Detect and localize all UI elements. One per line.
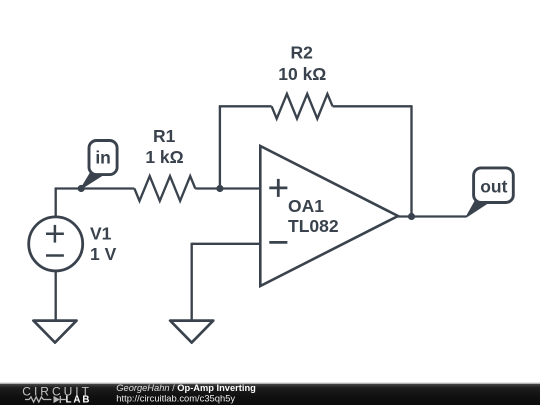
junction dot output node [408, 213, 415, 220]
wire R2 branch right segment [333, 105, 412, 107]
wire V1 bottom to ground [55, 271, 57, 321]
op-amp OA1 [260, 146, 398, 286]
svg-text:R2: R2 [291, 43, 314, 63]
voltage source V1 [29, 217, 83, 271]
wire R2 branch left segment [219, 105, 272, 107]
footer bar [0, 383, 540, 405]
junction dot node in [78, 185, 85, 192]
resistor R1 [134, 176, 195, 201]
svg-text:GeorgeHahn / Op-Amp Inverting: GeorgeHahn / Op-Amp Inverting [116, 383, 256, 393]
svg-text:1 kΩ: 1 kΩ [145, 147, 183, 167]
wire inverting input down to ground [191, 243, 193, 321]
svg-text:R1: R1 [153, 126, 176, 146]
svg-text:out: out [480, 177, 507, 197]
junction dot node A (R1/R2 riser) [216, 185, 223, 192]
wire riser from node A up to R2 branch [219, 106, 221, 188]
footer CircuitLab logo [22, 384, 92, 405]
svg-text:LAB: LAB [66, 395, 92, 405]
wire feedback drop to output node [410, 105, 412, 216]
resistor R2 [272, 94, 333, 119]
svg-text:http://circuitlab.com/c35qh5y: http://circuitlab.com/c35qh5y [116, 393, 235, 404]
svg-text:in: in [95, 148, 111, 168]
svg-text:1 V: 1 V [90, 244, 117, 264]
ground under V1 [33, 321, 76, 343]
svg-text:TL082: TL082 [288, 216, 339, 236]
wire op-amp inverting input [192, 243, 261, 245]
node out flag [467, 168, 514, 217]
wire node in to R1 left [55, 187, 135, 189]
ground under inverting input [170, 321, 213, 343]
wire V1 top to node in [55, 189, 57, 218]
node in flag [81, 141, 117, 189]
svg-text:10 kΩ: 10 kΩ [278, 64, 326, 84]
svg-text:OA1: OA1 [288, 196, 324, 216]
wire op-amp output to node out [397, 215, 467, 217]
wire R1 right to op-amp non-inverting input [195, 187, 260, 189]
svg-text:V1: V1 [90, 224, 112, 244]
